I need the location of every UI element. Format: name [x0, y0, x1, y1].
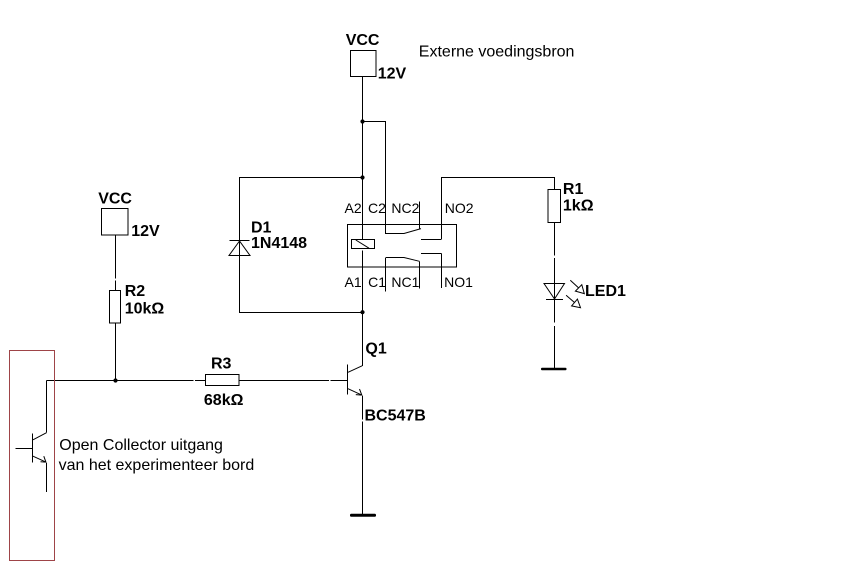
svg-text:C2: C2: [368, 200, 386, 216]
svg-text:Externe voedingsbron: Externe voedingsbron: [419, 43, 575, 60]
svg-text:VCC: VCC: [346, 32, 380, 49]
svg-text:LED1: LED1: [585, 283, 626, 300]
svg-text:R3: R3: [211, 356, 232, 373]
svg-text:12V: 12V: [131, 223, 160, 240]
svg-text:68kΩ: 68kΩ: [204, 392, 244, 409]
svg-text:10kΩ: 10kΩ: [125, 301, 165, 318]
svg-text:van het experimenteer bord: van het experimenteer bord: [59, 457, 255, 474]
svg-text:Q1: Q1: [365, 340, 386, 357]
svg-text:A2: A2: [345, 200, 362, 216]
svg-text:A1: A1: [345, 274, 362, 290]
svg-text:NO2: NO2: [445, 200, 474, 216]
svg-text:NC2: NC2: [391, 200, 419, 216]
svg-text:1N4148: 1N4148: [251, 235, 307, 252]
svg-text:VCC: VCC: [98, 191, 132, 208]
svg-text:NC1: NC1: [391, 274, 419, 290]
svg-text:1kΩ: 1kΩ: [563, 197, 594, 214]
svg-text:BC547B: BC547B: [365, 408, 426, 425]
svg-text:NO1: NO1: [444, 274, 473, 290]
svg-text:C1: C1: [368, 274, 386, 290]
svg-text:Open Collector uitgang: Open Collector uitgang: [59, 437, 223, 454]
svg-text:12V: 12V: [378, 66, 407, 83]
svg-text:R1: R1: [563, 181, 584, 198]
svg-text:R2: R2: [125, 283, 146, 300]
